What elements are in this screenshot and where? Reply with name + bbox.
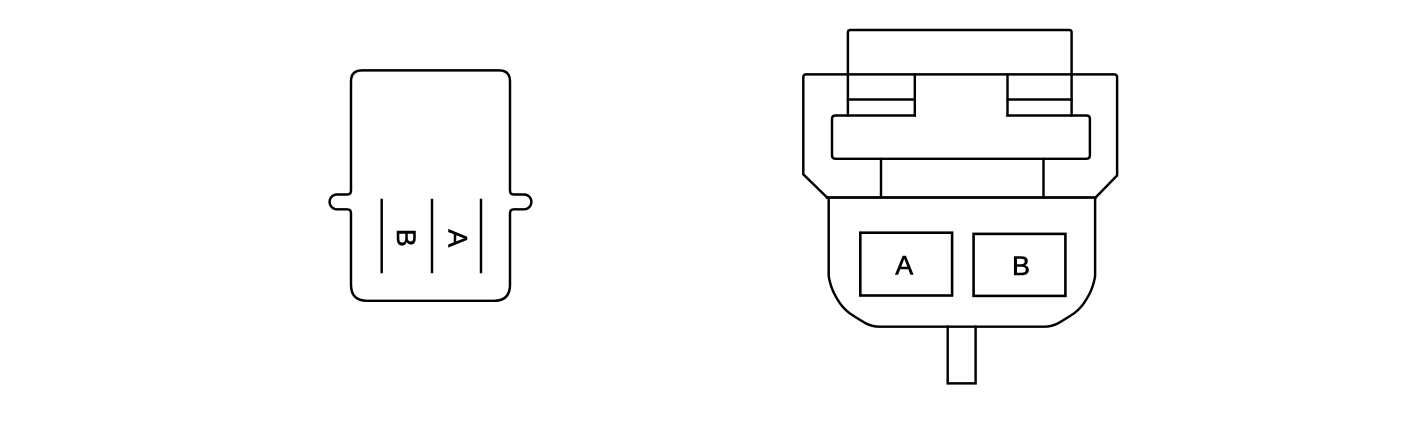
svg-text:A: A bbox=[442, 229, 472, 247]
lower body top edge span bbox=[827, 196, 1096, 198]
svg-text:B: B bbox=[391, 229, 421, 247]
notch shelf left bbox=[848, 98, 915, 100]
connecting rib right bbox=[1042, 159, 1044, 198]
bottom stem bbox=[948, 327, 976, 384]
right connector top tab bbox=[848, 30, 1072, 116]
left connector cavity line 1 bbox=[380, 200, 382, 272]
right connector housing bbox=[803, 74, 1117, 197]
right connector lower body bbox=[829, 198, 1095, 327]
svg-text:B: B bbox=[1012, 251, 1030, 281]
left connector cavity line 2 bbox=[431, 200, 433, 272]
notch vertical left bbox=[914, 74, 916, 115]
notch shelf right bbox=[1008, 98, 1072, 100]
notch vertical right bbox=[1006, 74, 1008, 115]
terminal box B bbox=[974, 234, 1066, 296]
left connector cavity line 3 bbox=[480, 200, 482, 272]
svg-text:A: A bbox=[895, 250, 913, 280]
latch bar bbox=[832, 116, 1090, 159]
left connector outline bbox=[330, 70, 532, 300]
terminal box A bbox=[860, 233, 952, 296]
connecting rib left bbox=[880, 159, 882, 198]
